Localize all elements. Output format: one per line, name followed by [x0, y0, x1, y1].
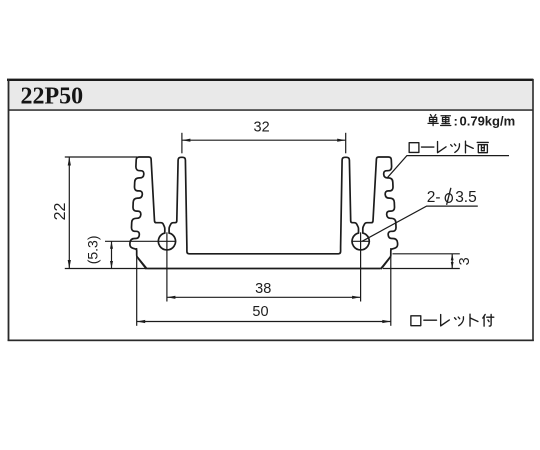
heatsink profile cross-section outline: [130, 157, 398, 269]
svg-text:3: 3: [457, 257, 473, 265]
dim 38 line: [167, 296, 361, 298]
svg-text:2-: 2-: [427, 189, 441, 206]
dim 32 line: [182, 139, 346, 141]
svg-text:22: 22: [52, 203, 69, 221]
dim (5.3) line: [111, 241, 113, 268]
svg-text:38: 38: [255, 281, 271, 297]
dim 22 extension top: [65, 156, 137, 158]
frame bottom border: [8, 340, 534, 342]
leader for 2-phi3.5 holes: [362, 206, 478, 241]
dim 22/(5.3) extension bottom: [65, 268, 147, 270]
svg-text:22P50: 22P50: [21, 83, 84, 109]
note: unit weight 0.79kg/m: [428, 115, 438, 126]
base left end chamfer hatch: [138, 259, 146, 270]
note: with knurl: [411, 316, 421, 326]
frame left border: [8, 79, 10, 341]
leader for knurled surface label: [387, 156, 509, 179]
label: knurled surface: [409, 143, 419, 153]
dim 50 extension right: [390, 248, 392, 326]
svg-text:3.5: 3.5: [455, 189, 477, 206]
frame right border: [532, 79, 534, 341]
hole R center mark: [352, 240, 370, 242]
dim 3 extension top: [393, 253, 460, 255]
dim 3 extension bottom: [383, 268, 460, 270]
svg-text:(5.3): (5.3): [85, 236, 101, 265]
hole R vertical axis / 38 extension: [360, 232, 362, 301]
title band: [8, 81, 533, 109]
dim 50 line: [137, 321, 391, 323]
svg-text::: :: [454, 114, 458, 129]
dim 50 extension left: [136, 248, 138, 326]
dim 32 extension lines: [181, 133, 183, 154]
dim 3 line: [451, 254, 453, 269]
base right end chamfer hatch: [381, 259, 389, 270]
hole L center mark + (5.3) extension line: [105, 240, 176, 242]
dim 22 line: [68, 157, 70, 269]
hole L vertical axis / 38 extension: [166, 232, 168, 301]
svg-text:50: 50: [252, 304, 268, 320]
svg-text:0.79kg/m: 0.79kg/m: [460, 114, 516, 129]
svg-text:32: 32: [254, 120, 270, 136]
